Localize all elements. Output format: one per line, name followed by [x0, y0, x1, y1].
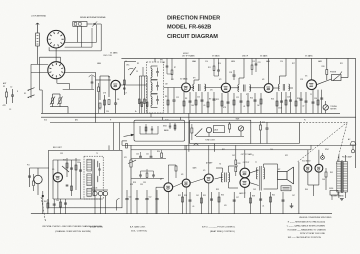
wire antenna feed to goniometer — [31, 64, 96, 98]
tube V8 af driver — [182, 179, 190, 187]
capacitor C2 far left — [10, 87, 14, 104]
detector loads — [271, 58, 308, 113]
speaker SP — [270, 164, 294, 189]
field coil — [281, 186, 291, 191]
tube V10 output upper — [240, 168, 250, 178]
tube V2 IF amplifier — [182, 83, 191, 92]
wire hop on af rail — [194, 144, 199, 146]
phone jack J1 — [317, 58, 349, 84]
dashed dial lamp line — [300, 122, 347, 124]
v8 wiring — [173, 145, 187, 213]
bus labels top — [103, 53, 313, 58]
rectifier tube V12 — [304, 164, 312, 172]
resistor right of control box — [189, 113, 193, 151]
bus AVC lower2 — [41, 116, 356, 118]
dashed leader to caption — [41, 197, 46, 222]
gap components V3 screen — [208, 58, 220, 76]
tone components right — [260, 121, 269, 144]
bfo box feeders — [109, 123, 119, 151]
gap components V4 screen — [251, 58, 260, 75]
wire loop to terminals — [49, 28, 101, 61]
pilot lamp PL1 — [321, 153, 325, 159]
audio feeders vertical — [185, 145, 311, 213]
caption volume control — [130, 225, 148, 232]
volume control VR1 — [124, 145, 136, 213]
wire goniometer bottom path — [40, 79, 95, 114]
bus AVC lower1 — [41, 112, 340, 114]
wire V4 plate — [268, 58, 270, 83]
tube V5 af output — [307, 80, 317, 90]
power transformer T8 — [331, 155, 347, 198]
ground far right — [340, 199, 344, 201]
goniometer box — [40, 57, 61, 90]
tube V6 bfo oscillator — [53, 173, 62, 182]
resistor R20 screen — [322, 58, 328, 80]
IF transformer T2 interstage — [190, 58, 221, 91]
bfo components — [53, 158, 101, 199]
rectifier tube V13 — [315, 164, 323, 172]
coupling parts audio — [131, 150, 166, 184]
resistor stack phase inverter — [235, 145, 241, 176]
antenna trimmer AT — [87, 21, 101, 51]
af rail lower — [131, 149, 311, 151]
gap components T1-V2 — [162, 58, 176, 80]
band switch S1 contacts — [24, 88, 35, 98]
wire T1 to V2 — [164, 84, 182, 114]
tube V7 af amplifier — [164, 183, 173, 192]
interstage transformer T6 — [215, 164, 239, 189]
wire ground right — [291, 203, 293, 206]
avc drops right — [312, 90, 324, 114]
bypass caps row left — [125, 190, 158, 214]
output tubes wiring — [239, 150, 259, 198]
wire V3 plate — [225, 58, 227, 83]
legend notes — [287, 217, 332, 239]
oscillator cluster — [89, 75, 147, 114]
wire V2 plate — [185, 58, 187, 83]
curly electrolytic symbol — [116, 199, 119, 211]
tuning comb resistors — [136, 67, 148, 113]
V2 cathode resistors — [183, 92, 216, 113]
output transformer T7 — [255, 162, 270, 191]
wire sub box bottom extension — [251, 123, 299, 144]
phono tone sub box — [190, 119, 251, 152]
far left labels — [3, 82, 19, 111]
antenna AN1 — [36, 23, 40, 64]
bus heater lower3 — [50, 122, 300, 124]
v7 grid leak — [156, 165, 177, 214]
wire right edge feeder — [355, 58, 357, 168]
dashed gang line diagonal — [298, 122, 348, 162]
BFO box outline — [49, 150, 122, 208]
ground right — [290, 206, 294, 208]
goniometer L2 — [48, 62, 65, 79]
tube V4 detector AVC — [264, 84, 273, 93]
caption bfo pitch control — [202, 226, 236, 233]
fuse box right — [329, 188, 338, 200]
scattered value labels — [44, 60, 343, 198]
tube V11 output lower — [240, 178, 250, 188]
loop antenna L1 — [47, 30, 65, 48]
bottom components audio row — [182, 192, 285, 214]
padder trimmers — [50, 94, 68, 113]
left bottom drops — [42, 191, 67, 214]
V3 bias network — [216, 93, 262, 113]
af rail mid — [122, 144, 356, 146]
v9 wiring — [190, 145, 209, 213]
rectifier wiring — [308, 150, 327, 196]
wire V5 plate — [311, 58, 313, 79]
B+ bus top — [121, 57, 355, 59]
band switch arrow — [122, 134, 134, 148]
chassis ground bus — [31, 213, 332, 215]
wire left feeder — [95, 72, 97, 122]
ac line plug — [348, 138, 356, 153]
caption phono switch — [42, 225, 103, 233]
IF transformer T1 — [147, 58, 164, 117]
phono jack cluster — [27, 165, 49, 196]
dashed gang line diagonal short — [337, 124, 348, 165]
IF transformer T4 to detector — [273, 58, 293, 90]
tube V1 converter — [111, 80, 120, 89]
title text — [167, 16, 220, 40]
tube V9 phase inverter — [204, 174, 213, 183]
IF transformer T3 — [229, 58, 264, 91]
bfo coil T5 — [84, 156, 103, 199]
resistor R1 far left — [3, 86, 8, 107]
tuning meter M1 — [323, 101, 338, 113]
electrolytic block — [91, 188, 108, 214]
terminal board sense antenna — [73, 22, 87, 47]
oscillator coil shield — [123, 62, 136, 95]
band switch control box — [134, 117, 185, 141]
tube V3 IF amplifier — [221, 83, 230, 92]
